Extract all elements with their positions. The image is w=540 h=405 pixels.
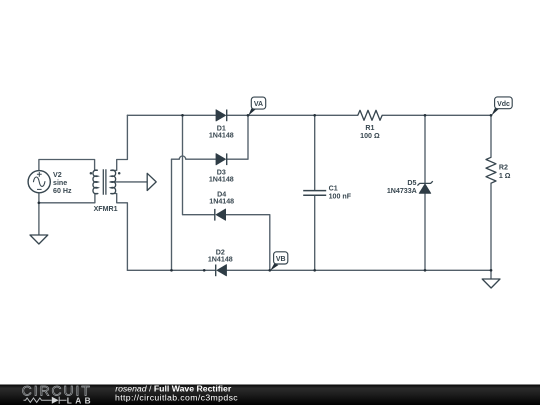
- diode D2: [216, 265, 227, 277]
- svg-text:1N4148: 1N4148: [209, 176, 234, 184]
- transformer primary polarity dot: [90, 172, 93, 175]
- junction dot zener top: [424, 114, 427, 117]
- diode D3: [216, 153, 227, 165]
- node flag Vdc: [491, 97, 512, 116]
- transformer secondary polarity dot: [118, 172, 121, 175]
- wire top rail R1 to Vdc corner: [382, 114, 491, 116]
- node flag VB: [270, 252, 288, 271]
- svg-text:LAB: LAB: [67, 395, 94, 405]
- svg-text:XFMR1: XFMR1: [94, 205, 118, 213]
- junction dot node VA: [247, 114, 250, 117]
- junction dot C1 bottom: [313, 269, 316, 272]
- wire ground stem under V2: [38, 203, 40, 235]
- wire zener branch top lead: [424, 115, 426, 183]
- wire C1 branch top lead: [314, 115, 316, 190]
- wire R2 branch bottom lead: [490, 183, 492, 270]
- wire secondary top lead up to top rail: [111, 115, 128, 170]
- svg-text:sine: sine: [53, 179, 67, 187]
- svg-text:VA: VA: [254, 101, 263, 108]
- wire V2 bottom: [38, 193, 40, 203]
- capacitor C1: [303, 191, 326, 196]
- wire VA junction down to D3 cathode: [227, 115, 248, 159]
- svg-text:V2: V2: [53, 171, 62, 179]
- resistor R2: [486, 157, 496, 183]
- diode D4: [215, 209, 226, 221]
- wire D3 anode with hop over vertical: [172, 156, 217, 159]
- wire right ground stem: [490, 270, 492, 279]
- junction dot bottom rail D3 branch: [170, 269, 173, 272]
- wire R2 branch top lead: [490, 115, 492, 157]
- svg-text:1N4148: 1N4148: [209, 198, 234, 206]
- node flag VA: [248, 97, 265, 116]
- svg-text:1 Ω: 1 Ω: [499, 172, 511, 180]
- wire top rail left segment to D1 anode: [127, 114, 216, 116]
- junction dot node VB: [268, 269, 271, 272]
- junction dot node Vdc: [490, 114, 493, 117]
- wire bottom rail left segment to D2 cathode: [127, 269, 215, 271]
- right ground: [482, 279, 500, 288]
- wire primary bottom lead: [39, 194, 98, 203]
- svg-text:1N4148: 1N4148: [209, 132, 234, 140]
- svg-text:R2: R2: [499, 164, 508, 172]
- zener diode D5: [417, 181, 432, 193]
- wire top junction down to D4 cathode: [183, 115, 215, 214]
- wire bottom rail D2 anode to right ground: [227, 269, 492, 271]
- ground under V2: [30, 235, 48, 244]
- svg-text:1N4148: 1N4148: [208, 256, 233, 264]
- junction dot top rail D4 branch: [181, 114, 184, 117]
- diode D1: [216, 110, 227, 122]
- footer bar: [0, 385, 540, 405]
- svg-text:1N4733A: 1N4733A: [387, 187, 417, 195]
- junction dot bottom rail stub: [203, 269, 206, 272]
- wire D4 anode to VB junction: [226, 215, 270, 271]
- logo wire resistor diode: [24, 397, 67, 404]
- svg-text:R1: R1: [365, 124, 374, 132]
- svg-text:100 nF: 100 nF: [329, 193, 352, 201]
- transformer XFMR1 secondary coil: [111, 170, 116, 194]
- svg-text:http://circuitlab.com/c3mpdsc: http://circuitlab.com/c3mpdsc: [115, 393, 238, 403]
- center tap ground (rotated): [147, 173, 156, 190]
- junction dot right ground corner: [490, 269, 493, 272]
- transformer XFMR1 primary coil: [93, 170, 98, 194]
- junction dot C1 top: [313, 114, 316, 117]
- junction dot V2 bottom: [38, 201, 41, 204]
- svg-text:Vdc: Vdc: [497, 101, 510, 108]
- svg-text:C1: C1: [329, 184, 338, 192]
- junction dot zener bottom: [424, 269, 427, 272]
- wire C1 branch bottom lead: [314, 195, 316, 270]
- wire center tap to ground: [111, 181, 147, 183]
- wire V2 top to transformer primary: [39, 160, 97, 171]
- svg-text:100 Ω: 100 Ω: [360, 132, 380, 140]
- wire zener branch bottom lead: [424, 193, 426, 270]
- voltage source V2: [28, 171, 50, 193]
- svg-text:D5: D5: [407, 179, 416, 187]
- wire top rail D1 cathode to R1: [227, 114, 358, 116]
- svg-text:VB: VB: [276, 256, 286, 263]
- svg-text:60 Hz: 60 Hz: [53, 187, 72, 195]
- wire secondary bottom lead down to bottom rail: [111, 194, 128, 271]
- resistor R1: [358, 110, 382, 120]
- wire D3 anode down to bottom rail: [171, 159, 173, 270]
- transformer XFMR1 core: [103, 169, 106, 194]
